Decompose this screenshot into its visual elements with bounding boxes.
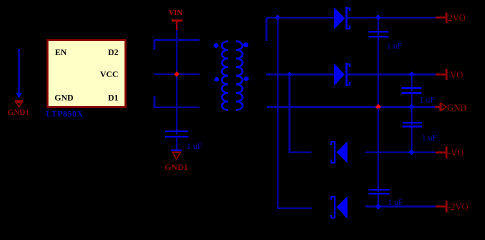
junction node top <box>275 15 281 21</box>
diode D4 <box>331 196 347 219</box>
svg-text:GND: GND <box>447 103 467 113</box>
svg-text:VCC: VCC <box>100 69 118 79</box>
wire C2 to GND rail <box>377 38 379 107</box>
svg-text:VO: VO <box>450 70 463 80</box>
capacitor C4 (-VO) <box>403 108 422 152</box>
port 2VO <box>436 12 466 23</box>
wire secondary top stub <box>266 18 268 41</box>
transformer T1 secondary polarity dots <box>244 42 249 81</box>
junction GND blue <box>409 104 415 110</box>
svg-text:1 uF: 1 uF <box>388 197 404 207</box>
capacitor C1 (VIN bypass) <box>165 131 189 150</box>
svg-text:-2VO: -2VO <box>448 202 469 212</box>
wire center-tap line middle <box>154 73 199 75</box>
junction -2VO cap <box>375 204 381 210</box>
transformer T1 primary winding <box>222 41 228 110</box>
ground GND1 left symbol <box>15 100 23 107</box>
svg-text:LTP850X: LTP850X <box>46 109 84 119</box>
wire -2VO rail <box>365 206 435 208</box>
wire -VO rail <box>365 151 435 153</box>
svg-text:GND1: GND1 <box>165 162 189 172</box>
pin GND <box>55 93 74 103</box>
capacitor C1 value 1uF <box>187 141 203 151</box>
junction VIN to center tap <box>174 72 179 77</box>
port VO <box>436 69 464 80</box>
wire 2VO rail right <box>347 17 435 19</box>
part label LTP850X <box>46 109 84 119</box>
junction node mid <box>287 72 293 78</box>
diode D3 <box>331 141 347 164</box>
wire cross vertical to D4 <box>278 18 312 209</box>
port -VO <box>436 147 465 159</box>
wire VO rail left (center tap) <box>266 74 334 76</box>
port -2VO <box>436 201 469 213</box>
svg-text:1 uF: 1 uF <box>187 141 203 151</box>
svg-text:1 uF: 1 uF <box>420 94 436 104</box>
pin D1 <box>108 93 118 103</box>
wire to GND1 left <box>18 49 20 94</box>
svg-text:-VO: -VO <box>448 148 464 158</box>
svg-text:GND1: GND1 <box>8 108 30 117</box>
pin D2 <box>108 47 118 57</box>
wire GND to C5 vertical <box>377 108 379 192</box>
junction VO cap <box>409 72 415 78</box>
svg-text:EN: EN <box>55 47 68 57</box>
wire D1 drain line bottom <box>154 96 199 107</box>
transformer T1 primary polarity dots <box>214 43 219 82</box>
diode D2 <box>334 63 350 86</box>
wire VO rail right <box>347 74 435 76</box>
power VIN label <box>169 8 183 17</box>
junction GND red <box>375 104 381 110</box>
wire cross vertical to D3 <box>290 75 312 153</box>
ground GND1 under C1 <box>171 149 182 159</box>
svg-text:VIN: VIN <box>169 8 183 17</box>
svg-text:1 uF: 1 uF <box>422 132 438 142</box>
ground GND1 under C1 label <box>165 162 189 172</box>
capacitor C3 value 1uF <box>420 94 436 104</box>
node arrow (unconnected pin) <box>16 93 22 98</box>
capacitor C4 value 1uF <box>422 132 438 142</box>
svg-text:2VO: 2VO <box>448 13 466 23</box>
svg-text:1 uF: 1 uF <box>387 40 403 50</box>
capacitor C2 value 1uF <box>387 40 403 50</box>
transformer T1 secondary winding <box>236 41 242 110</box>
svg-text:GND: GND <box>55 93 74 103</box>
capacitor C3 (VO) <box>402 76 422 107</box>
diode D1 <box>334 7 350 30</box>
wire 2VO rail left <box>267 17 334 19</box>
IC U1 body <box>48 40 126 107</box>
ground GND1 left label <box>8 108 30 117</box>
svg-text:D2: D2 <box>108 47 118 57</box>
junction 2VO cap <box>375 15 381 21</box>
pin EN <box>55 47 68 57</box>
power VIN bar symbol <box>172 19 183 30</box>
wire GND rail <box>267 106 435 108</box>
pin VCC <box>100 69 118 79</box>
wire VIN vertical <box>176 30 178 134</box>
capacitor C2 (2VO) <box>368 19 388 38</box>
junction -VO cap <box>409 149 415 155</box>
svg-text:D1: D1 <box>108 93 118 103</box>
wire D2 drain line top <box>154 40 199 50</box>
capacitor C5 (-2VO) <box>368 189 389 207</box>
port GND <box>435 103 467 113</box>
capacitor C5 value 1uF <box>388 197 404 207</box>
